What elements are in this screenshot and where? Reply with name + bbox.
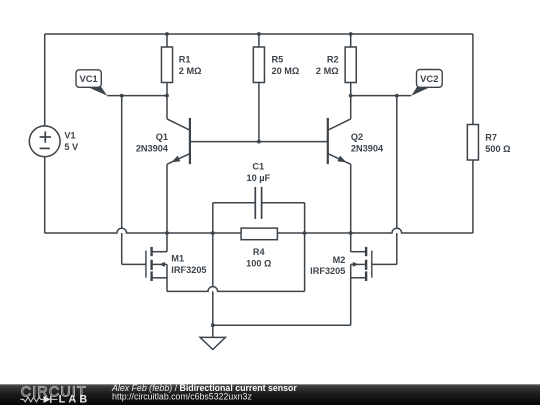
- wire M2 gate lead: [372, 263, 397, 265]
- wire bottom link M1 source to loop right: [167, 287, 305, 292]
- label R7 500 Ω: [485, 132, 510, 154]
- wire VC2 gate drop: [396, 96, 398, 265]
- footer bar: [0, 384, 540, 405]
- resistor R7: [467, 125, 478, 161]
- wire R1 top lead: [166, 34, 168, 47]
- svg-text:Q1: Q1: [156, 132, 168, 142]
- transistor Q2: [328, 118, 351, 164]
- label Q1 2N3904: [136, 132, 169, 154]
- wire R1 bottom lead: [166, 83, 168, 96]
- svg-text:R2: R2: [327, 55, 339, 65]
- svg-text:V1: V1: [64, 131, 75, 141]
- wire Q2 emitter drop: [350, 164, 352, 233]
- voltage source V1: [29, 126, 60, 157]
- svg-text:IRF3205: IRF3205: [171, 265, 206, 275]
- svg-text:2N3904: 2N3904: [351, 143, 384, 153]
- svg-text:LAB: LAB: [59, 394, 91, 405]
- capacitor C1: [255, 187, 261, 219]
- label M1 IRF3205: [171, 254, 206, 275]
- svg-text:IRF3205: IRF3205: [310, 266, 345, 276]
- resistor R5: [253, 47, 264, 83]
- wire M2 source drop: [350, 264, 352, 325]
- wire VC1 gate drop: [121, 96, 123, 265]
- wire Q2 collector: [350, 96, 352, 119]
- resistor R1: [161, 47, 172, 83]
- resistor R2: [345, 47, 356, 83]
- flag VC1: [76, 70, 107, 96]
- label R5 20 MΩ: [272, 55, 300, 76]
- label R1 2 MΩ: [179, 55, 202, 76]
- svg-text:VC2: VC2: [420, 73, 438, 84]
- svg-text:M1: M1: [171, 254, 184, 264]
- hop masks: [117, 228, 402, 291]
- wire R7 bottom lead: [472, 160, 474, 233]
- svg-text:R5: R5: [272, 55, 284, 65]
- wire V1 bottom lead: [44, 157, 46, 233]
- label M2 IRF3205: [310, 255, 345, 276]
- svg-text:http://circuitlab.com/c6bs5322: http://circuitlab.com/c6bs5322uxn3z: [112, 392, 252, 402]
- label V1 5 V: [64, 131, 79, 153]
- wire V1 top lead: [44, 34, 46, 126]
- logo diode: [44, 396, 58, 403]
- wire R5 top lead: [258, 34, 260, 47]
- wire Q1 collector: [166, 96, 168, 119]
- wire M1 gate lead: [122, 263, 146, 265]
- label R4 100 Ω: [246, 247, 271, 269]
- label Q2 2N3904: [351, 132, 384, 154]
- wire node VC1 to R1: [107, 95, 167, 97]
- wire ground bus: [213, 324, 351, 326]
- svg-text:10 µF: 10 µF: [246, 173, 270, 183]
- svg-text:20 MΩ: 20 MΩ: [272, 66, 300, 76]
- label R2 2 MΩ: [316, 55, 339, 76]
- svg-text:Q2: Q2: [351, 132, 363, 142]
- wire M1 drain riser: [166, 233, 168, 252]
- wire R2 bottom lead: [350, 83, 352, 96]
- mosfet M2: [351, 247, 372, 281]
- svg-text:500 Ω: 500 Ω: [485, 144, 510, 154]
- resistor R4: [241, 228, 277, 240]
- svg-text:R1: R1: [179, 55, 191, 65]
- wire M2 drain riser: [350, 233, 352, 252]
- wire M1 source drop: [166, 264, 168, 291]
- flag VC2: [411, 70, 442, 96]
- wire main rail with hops: [45, 228, 473, 233]
- svg-text:R7: R7: [485, 132, 497, 142]
- svg-text:100 Ω: 100 Ω: [246, 258, 271, 268]
- wire base bus Q1-Q2: [190, 141, 328, 143]
- wire R5 bottom lead: [258, 83, 260, 142]
- svg-text:VC1: VC1: [79, 73, 97, 84]
- wire loop right vertical: [304, 203, 306, 292]
- label C1 10 µF: [246, 161, 270, 183]
- svg-text:M2: M2: [333, 255, 346, 265]
- wire R7 top lead: [472, 34, 474, 125]
- transistor Q1: [167, 118, 190, 164]
- mosfet M1: [146, 247, 167, 281]
- wire top rail: [45, 33, 473, 35]
- wire C1 left lead: [213, 202, 256, 204]
- svg-text:5 V: 5 V: [64, 142, 79, 152]
- wire ground stub: [212, 325, 214, 337]
- wire node R2 to VC2: [351, 95, 412, 97]
- wire R2 top lead: [350, 34, 352, 47]
- ground: [200, 337, 225, 349]
- wire Q1 emitter drop: [166, 164, 168, 233]
- svg-text:C1: C1: [252, 161, 264, 171]
- wire C1 right lead: [262, 202, 305, 204]
- svg-text:2 MΩ: 2 MΩ: [316, 66, 339, 76]
- logo resistor zigzag: [20, 397, 43, 402]
- svg-text:R4: R4: [253, 247, 266, 257]
- svg-text:2N3904: 2N3904: [136, 144, 169, 154]
- svg-text:2 MΩ: 2 MΩ: [179, 66, 202, 76]
- wire loop left vertical: [212, 203, 214, 326]
